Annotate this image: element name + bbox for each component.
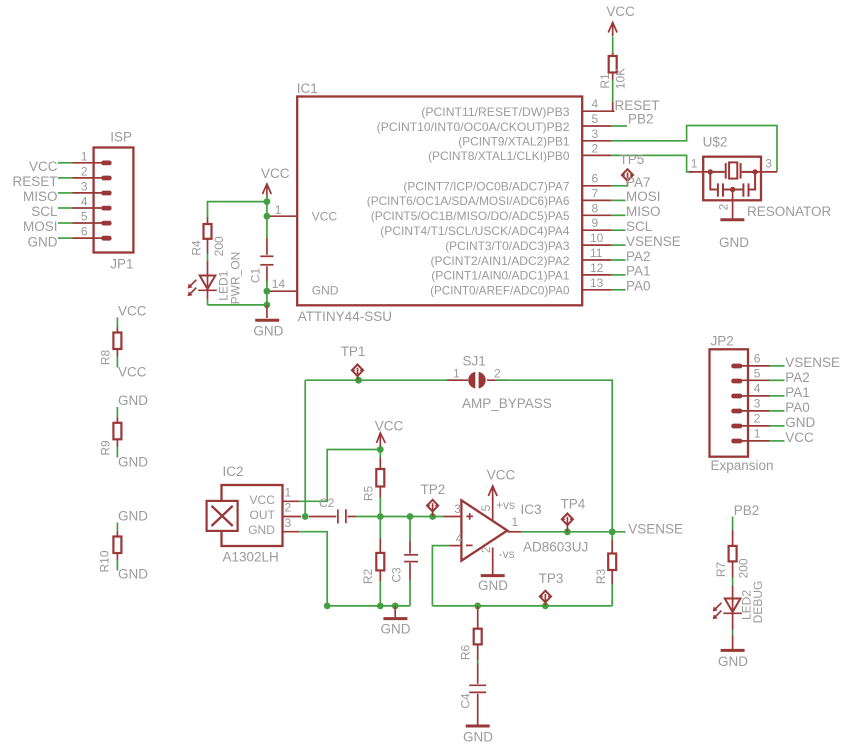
wire SJ1 to VSENSE line [495,380,612,532]
svg-text:2: 2 [81,164,88,178]
test point TP4 [562,514,573,532]
svg-text:4: 4 [456,532,463,546]
svg-text:R9: R9 [99,440,113,456]
svg-text:R1: R1 [598,73,612,89]
resistor R8 [116,328,118,333]
test point TP1 [352,365,363,381]
IC1 pin 3 stub [582,140,611,142]
wire PA2 stub [611,259,626,261]
junction dot GND stub [392,603,399,610]
svg-text:R4: R4 [189,240,203,256]
svg-text:PWR_ON: PWR_ON [229,252,243,305]
svg-text:ATTINY44-SSU: ATTINY44-SSU [298,309,392,324]
svg-text:2: 2 [717,203,731,210]
test point TP5 diamond [622,169,633,186]
wire VCC to IC2 pin1 [299,450,380,502]
wire C1 to pin14 [266,281,268,305]
IC1 pin 8 stub [582,214,611,216]
svg-text:GND: GND [463,730,493,745]
svg-text:TP3: TP3 [539,571,564,586]
junction dot VCC/R4 [264,198,271,205]
svg-text:1: 1 [691,157,698,171]
svg-text:(PCINT3/T0/ADC3)PA3: (PCINT3/T0/ADC3)PA3 [445,239,570,253]
resonator pin 3 lead [755,171,777,173]
svg-text:GND: GND [381,622,411,637]
svg-text:JP1: JP1 [110,257,133,272]
wire VCC vertical to pin1/C1 [266,196,268,239]
svg-text:11: 11 [590,246,603,260]
IC1 pin 1 stub (VCC, left) [267,215,297,217]
svg-text:-vs: -vs [499,547,515,561]
supply VCC symbol (above C1) [263,184,272,198]
svg-text:1: 1 [275,203,282,217]
svg-text:5: 5 [754,366,761,380]
wire MOSI to JP1 pin5 [58,222,73,224]
lead R1 to pin4 [612,102,614,111]
resistor R7 [732,531,734,546]
svg-text:5: 5 [479,504,493,511]
svg-text:PA1: PA1 [626,264,651,279]
IC2 pin 3 stub [283,531,300,533]
wire PA0 stub [611,289,626,291]
wire MOSI stub [611,199,626,201]
svg-text:(PCINT2/AIN1/ADC2)PA2: (PCINT2/AIN1/ADC2)PA2 [431,254,570,268]
svg-text:TP5: TP5 [620,152,645,167]
svg-text:OUT: OUT [250,508,276,522]
lead VCC arrow to junction [379,445,381,450]
svg-text:TP2: TP2 [421,482,446,497]
svg-text:VSENSE: VSENSE [628,522,683,537]
svg-text:DEBUG: DEBUG [751,581,765,624]
wire R8 top [116,318,118,329]
resonator junction dots [708,169,713,174]
wire R7 to LED2 [732,578,734,587]
resonator internal capacitors [710,172,755,197]
junction dot R2/GND rail [377,603,384,610]
svg-text:(PCINT11/RESET/DW)PB3: (PCINT11/RESET/DW)PB3 [421,105,570,119]
wire GND to JP1 pin6 [58,237,73,239]
resonator U$2 body [703,157,761,201]
LED2 light arrows [732,599,734,614]
wire R2 bottom to GND rail [379,581,381,606]
svg-text:C3: C3 [390,567,404,583]
svg-text:JP2: JP2 [711,334,734,349]
wire MISO to JP1 pin3 [58,192,73,194]
svg-text:Expansion: Expansion [711,458,774,473]
op-amp + marker [466,513,473,520]
svg-text:VCC: VCC [375,419,404,434]
svg-text:4: 4 [81,195,88,209]
svg-text:R6: R6 [459,645,473,661]
junction dot pin14 [264,288,271,295]
svg-text:PB2: PB2 [628,112,654,127]
IC1 pin 7 stub [582,199,611,201]
junction dot TP1 [355,377,362,384]
wire LED2 to GND [732,630,734,637]
svg-text:IC3: IC3 [521,502,542,517]
ground symbol under LED2 [732,636,734,650]
resonator crystal symbol [710,162,755,178]
svg-text:MOSI: MOSI [23,219,58,234]
JP1 pin 2 [73,177,104,179]
svg-text:1: 1 [81,149,88,163]
svg-text:12: 12 [590,261,604,275]
svg-text:IC1: IC1 [297,81,318,96]
svg-text:10K: 10K [614,68,628,89]
svg-text:GND: GND [248,523,275,537]
junction dot R5/R2 on amp input [377,513,384,520]
wire GND from IC2 pin3 [299,532,327,606]
svg-text:VCC: VCC [261,166,290,181]
resistor R3 [611,532,613,540]
wire MISO stub [611,214,626,216]
junction dot TP2 [429,513,436,520]
test point TP3 [540,591,551,606]
lead R1 top [612,53,614,56]
svg-text:GND: GND [28,234,58,249]
svg-text:PA0: PA0 [626,279,651,294]
svg-text:MOSI: MOSI [626,189,661,204]
svg-text:(PCINT0/AREF/ADC0)PA0: (PCINT0/AREF/ADC0)PA0 [430,284,570,298]
svg-text:R3: R3 [594,569,608,585]
wire R5 bottom to OUT line [379,498,381,517]
IC1 pin 6 stub [582,185,611,187]
junction dot VCC/pin1 [264,213,271,220]
resonator pin 1 lead [689,171,710,173]
svg-text:PA2: PA2 [785,370,810,385]
connector JP2 body [710,349,749,456]
svg-text:R10: R10 [98,550,112,572]
LED1 diode symbol [207,261,209,276]
svg-text:(PCINT1/AIN0/ADC1)PA1: (PCINT1/AIN0/ADC1)PA1 [431,269,570,283]
wire GND rail under LED1/C1 [208,304,267,306]
resistor R2 [379,517,381,540]
resistor R9 [116,418,118,423]
svg-text:3: 3 [765,157,772,171]
svg-text:VCC: VCC [29,159,58,174]
ground symbol under C4 [466,725,490,728]
svg-text:4: 4 [754,381,761,395]
wire SCL to JP1 pin4 [58,207,73,209]
JP1 pin 5 [73,222,104,224]
capacitor C4 [477,664,479,684]
svg-text:GND: GND [118,393,148,408]
svg-text:GND: GND [253,323,283,338]
IC2 X-square [207,501,238,531]
op-amp IC3 triangle [461,500,507,560]
op-amp +vs lead [492,498,494,521]
wire RESET net below R1 [612,79,614,103]
svg-text:9: 9 [592,216,599,230]
svg-text:ISP: ISP [110,130,132,145]
svg-text:2: 2 [592,141,599,155]
IC1 pin 10 stub [582,244,611,246]
JP2 pin 6 [742,365,770,367]
op-amp - marker [466,544,473,546]
ground symbol (op-amp) [481,574,505,577]
wire R4 to LED1 [207,254,209,262]
wire VCC to JP1 pin1 [58,162,73,164]
IC1 pin 4 stub [582,110,615,112]
solder jumper SJ1 [447,379,468,381]
wire PB2 to R7 [732,517,734,532]
svg-text:VCC: VCC [118,303,147,318]
wire R8 bottom [116,357,118,368]
junction dot VCC/R5/IC2 [377,446,384,453]
svg-text:10: 10 [590,231,604,245]
svg-text:3: 3 [592,127,599,141]
resistor R5 [379,450,381,459]
resistor R4 [207,217,209,224]
svg-text:C1: C1 [248,268,262,284]
svg-text:C2: C2 [319,496,335,510]
svg-text:U$2: U$2 [703,135,728,150]
JP2 pin 1 [742,440,770,442]
svg-text:2: 2 [479,546,493,553]
IC1 pin 9 stub [582,229,611,231]
JP1 pin 1 [73,162,104,164]
svg-text:RESET: RESET [12,174,57,189]
op-amp pin 1 stub [507,531,521,533]
IC2 pin 1 stub [283,500,300,502]
svg-text:1: 1 [453,367,460,381]
wire R9 top [116,407,118,418]
wire XTAL1 net (pin2 to resonator pin1) [611,155,693,172]
svg-text:2: 2 [754,411,761,425]
svg-text:3: 3 [81,179,88,193]
svg-text:200: 200 [737,558,751,578]
supply VCC symbol (op-amp) [488,486,497,500]
wire PA1 stub [611,274,626,276]
wire VSENSE stub [611,244,626,246]
svg-text:14: 14 [272,277,286,291]
svg-text:SCL: SCL [626,219,653,234]
svg-text:R2: R2 [361,569,375,585]
wire R3 bottom to rail [611,584,613,606]
JP1 pin 4 [73,207,104,209]
IC1 pin 11 stub [582,259,611,261]
wire OUT net TP1/SJ1 horizontal [305,379,463,381]
svg-text:4: 4 [592,97,599,111]
svg-text:3: 3 [754,396,761,410]
resistor R1 [609,56,617,73]
svg-text:GND: GND [719,235,749,250]
IC1 ATTINY44-SSU body [297,97,582,306]
svg-text:(PCINT6/OC1A/SDA/MOSI/ADC6)PA6: (PCINT6/OC1A/SDA/MOSI/ADC6)PA6 [367,194,570,208]
svg-text:PA2: PA2 [626,249,651,264]
svg-text:VCC: VCC [312,210,338,224]
svg-text:2: 2 [494,367,501,381]
wire R10 top [116,523,118,533]
svg-text:R8: R8 [99,350,113,366]
wire XTAL2 net (pin3 to resonator pin3) [611,126,777,172]
IC1 pin 5 stub [582,125,611,127]
ground symbol under resonator [720,218,744,221]
svg-text:SCL: SCL [31,204,58,219]
svg-text:GND: GND [118,567,148,582]
svg-text:2: 2 [285,501,292,515]
wire VSENSE output [521,531,626,533]
svg-text:R7: R7 [714,562,728,578]
svg-text:5: 5 [81,210,88,224]
capacitor C2 [309,516,336,518]
svg-text:PA1: PA1 [785,385,810,400]
svg-text:AD8603UJ: AD8603UJ [523,540,588,555]
svg-text:200: 200 [212,236,226,256]
wire R6 to C4 [477,660,479,664]
JP1 pin 6 [73,237,104,239]
test point TP2 [427,500,438,517]
svg-text:(PCINT9/XTAL2)PB1: (PCINT9/XTAL2)PB1 [458,135,570,149]
ground symbol under IC1 [266,305,268,318]
wire feedback pin4 [432,546,449,606]
svg-text:5: 5 [592,112,599,126]
svg-text:R5: R5 [362,486,376,502]
svg-text:GND: GND [478,578,508,593]
wire feedback bottom rail [432,605,612,607]
svg-text:PA0: PA0 [785,400,810,415]
svg-text:(PCINT8/XTAL1/CLKI)PB0: (PCINT8/XTAL1/CLKI)PB0 [428,149,570,163]
svg-text:VCC: VCC [785,430,814,445]
svg-text:6: 6 [81,225,88,239]
capacitor C3 [409,517,411,542]
svg-text:PB2: PB2 [734,503,760,518]
svg-text:VCC: VCC [487,468,516,483]
IC1 pin 2 stub [582,154,611,156]
JP2 pin 4 [742,395,770,397]
svg-text:MISO: MISO [23,189,58,204]
op-amp pin 4 stub [450,545,462,547]
svg-text:1: 1 [754,426,761,440]
IC1 pin 13 stub [582,289,611,291]
LED1 light arrows [207,276,209,291]
wire PA7 stub [611,185,628,187]
svg-text:(PCINT5/OC1B/MISO/DO/ADC5)PA5: (PCINT5/OC1B/MISO/DO/ADC5)PA5 [371,209,570,223]
IC1 pin 14 stub (GND, left) [267,290,297,292]
wire PB2 stub [611,125,627,127]
hall sensor IC2 body [222,485,283,546]
svg-text:GND: GND [118,454,148,469]
resistor R6 [477,606,479,629]
svg-text:6: 6 [592,172,599,186]
svg-text:(PCINT10/INT0/OC0A/CKOUT)PB2: (PCINT10/INT0/OC0A/CKOUT)PB2 [377,120,570,134]
svg-text:(PCINT4/T1/SCL/USCK/ADC4)PA4: (PCINT4/T1/SCL/USCK/ADC4)PA4 [380,224,570,238]
resistor R10 [116,532,118,537]
junction dot TP3 [542,603,549,610]
wire R10 bottom [116,560,118,571]
connector JP1 body [94,148,134,253]
svg-text:TP1: TP1 [341,344,366,359]
svg-text:VCC: VCC [606,4,635,19]
wire RESET net vertical to R1 [612,37,614,55]
junction dot TP4 [564,528,571,535]
junction dot R6 [474,603,481,610]
svg-text:RESONATOR: RESONATOR [747,204,832,219]
svg-text:3: 3 [285,516,292,530]
svg-text:6: 6 [754,351,761,365]
IC1 pin 12 stub [582,274,611,276]
junction dot VSENSE/R3/SJ1 [609,528,616,535]
svg-text:VCC: VCC [118,365,147,380]
junction dot IC2 GND corner [324,603,331,610]
junction dot OUT/C2 [302,513,309,520]
svg-text:1: 1 [285,485,292,499]
svg-text:VCC: VCC [250,493,276,507]
JP2 pin 3 [742,410,770,412]
svg-text:GND: GND [118,509,148,524]
JP2 pin 5 [742,379,770,381]
svg-text:VSENSE: VSENSE [626,234,681,249]
wire GND rail (middle) [327,605,410,607]
svg-text:VSENSE: VSENSE [785,355,840,370]
svg-text:GND: GND [785,415,815,430]
wire C3 bottom to GND rail [409,580,411,606]
svg-text:PA7: PA7 [626,175,651,190]
wire LED1 to GND rail [207,299,209,305]
wire OUT net vertical (TP1 down to C2) [304,380,306,516]
svg-text:TP4: TP4 [561,497,586,512]
wire VCC branch to R4 [208,202,267,218]
JP1 pin 3 [73,192,104,194]
svg-text:7: 7 [592,186,599,200]
op-amp -vs lead [492,548,494,576]
wire C2 to op-amp input [356,516,445,518]
capacitor C1 [266,238,268,255]
svg-text:SJ1: SJ1 [463,354,486,369]
ground symbol (middle) [394,606,396,617]
wire R9 bottom [116,447,118,458]
LED2 diode symbol [732,586,734,599]
svg-text:8: 8 [592,201,599,215]
svg-text:MISO: MISO [626,204,661,219]
junction dot GND rail [264,302,271,309]
svg-text:GND: GND [718,654,748,669]
wire SCL stub [611,229,626,231]
wire RESET to JP1 pin2 [58,177,73,179]
svg-text:C4: C4 [459,693,473,709]
IC2 pin 2 stub [283,516,302,518]
svg-text:IC2: IC2 [223,464,244,479]
svg-text:3: 3 [454,502,461,516]
supply VCC symbol (top right) [608,23,617,37]
svg-text:1: 1 [512,515,519,529]
svg-text:(PCINT7/ICP/OC0B/ADC7)PA7: (PCINT7/ICP/OC0B/ADC7)PA7 [403,179,569,193]
JP2 pin 2 [742,425,770,427]
svg-text:13: 13 [590,276,604,290]
svg-text:AMP_BYPASS: AMP_BYPASS [462,396,552,411]
supply VCC symbol (above R5) [377,433,386,447]
svg-text:GND: GND [312,284,339,298]
op-amp pin 3 stub [444,516,462,518]
junction dot C3 top [407,513,414,520]
svg-text:A1302LH: A1302LH [223,550,279,565]
svg-text:+vs: +vs [496,498,515,512]
resonator pin 2 lead to GND [732,190,734,219]
